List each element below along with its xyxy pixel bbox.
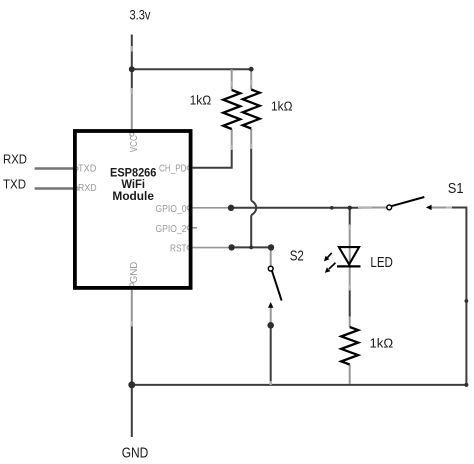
svg-text:LED: LED <box>370 255 393 271</box>
svg-text:1kΩ: 1kΩ <box>190 92 212 107</box>
svg-text:GPIO_2: GPIO_2 <box>156 224 187 235</box>
svg-text:TXD: TXD <box>3 177 26 192</box>
svg-text:CH_PD: CH_PD <box>159 163 187 174</box>
svg-text:1kΩ: 1kΩ <box>370 335 394 350</box>
svg-text:1kΩ: 1kΩ <box>271 98 293 113</box>
svg-text:TXD: TXD <box>78 163 96 174</box>
svg-text:RXD: RXD <box>78 183 97 194</box>
svg-text:S2: S2 <box>290 248 304 264</box>
svg-text:VCC: VCC <box>129 135 140 152</box>
svg-text:GPIO_0: GPIO_0 <box>156 204 187 215</box>
svg-text:RST: RST <box>170 244 187 255</box>
svg-text:RXD: RXD <box>3 152 27 167</box>
svg-text:GND: GND <box>129 262 140 284</box>
svg-text:3.3v: 3.3v <box>130 8 151 23</box>
svg-text:GND: GND <box>122 445 149 461</box>
svg-text:Module: Module <box>112 189 154 203</box>
svg-text:S1: S1 <box>448 181 464 197</box>
